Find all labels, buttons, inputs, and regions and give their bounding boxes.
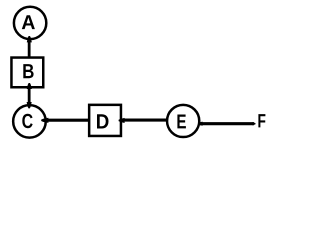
- arrowhead into C (over node): [41, 118, 48, 123]
- node D (rect): [89, 105, 121, 136]
- node B (rect): [11, 58, 43, 88]
- label A: [22, 15, 35, 29]
- arrowhead into E (under node): [198, 122, 203, 126]
- node A (ellipse): [14, 7, 46, 39]
- wire F to E (horizontal): [200, 122, 254, 125]
- label D: [97, 114, 108, 128]
- wire E to D (horizontal): [121, 119, 167, 122]
- label E: [177, 115, 186, 129]
- wire D to C (horizontal): [46, 119, 90, 122]
- arrowhead into D (over node): [119, 118, 125, 123]
- arrowhead into C from B (over node): [27, 102, 32, 108]
- node E (ellipse): [167, 105, 199, 137]
- arrow tip at F end: [253, 122, 256, 125]
- label C: [22, 114, 32, 129]
- wire B to A (vertical): [28, 39, 31, 58]
- wire C to B (vertical): [28, 88, 31, 106]
- arrowhead into A (over node): [27, 36, 32, 42]
- arrowhead into B (over node): [27, 83, 32, 89]
- node C (ellipse): [13, 105, 46, 138]
- label B: [23, 64, 33, 78]
- label F: [258, 114, 265, 127]
